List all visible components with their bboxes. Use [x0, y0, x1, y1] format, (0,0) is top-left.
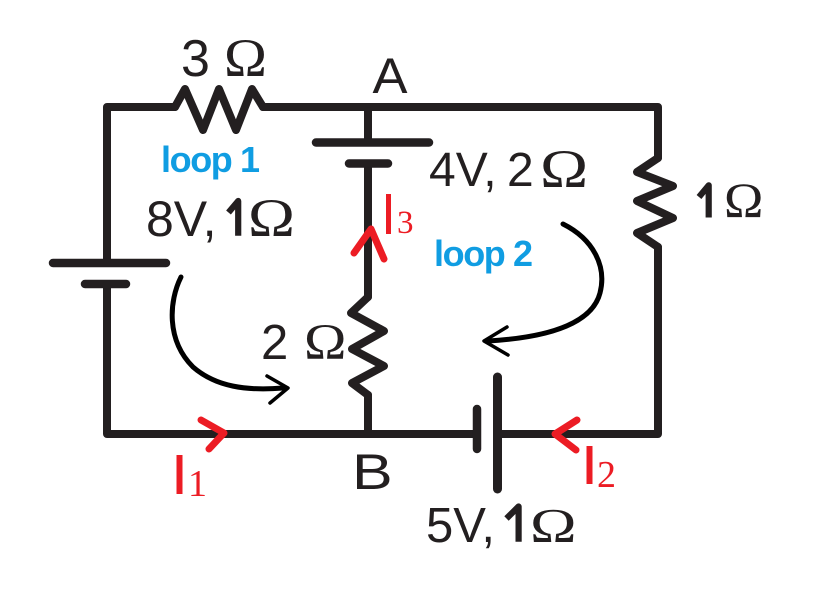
battery B2 (4V,2 ohm) long plate	[316, 138, 429, 147]
svg-text:2: 2	[507, 144, 534, 197]
svg-text:Ω: Ω	[530, 499, 577, 553]
svg-text:Ω: Ω	[224, 29, 267, 89]
wire left side + top-left corner	[107, 107, 175, 263]
value label 8V,1 ohm (battery B1)	[146, 188, 295, 248]
current label I2	[587, 446, 617, 496]
value label 1 ohm (resistor R2)	[699, 173, 763, 228]
wire node A stub down to battery B2	[364, 111, 372, 142]
wire top (through node A) + top-right corner	[263, 107, 658, 158]
wire middle branch (battery B2 to resistor R3)	[364, 166, 372, 297]
current arrow I3 (red, pointing up on middle branch)	[354, 229, 384, 259]
current arrow I2 (red, pointing left on bottom wire)	[555, 420, 577, 450]
battery B3 (5V,1 ohm) long plate	[493, 377, 502, 489]
battery B2 (4V,2 ohm) short plate	[349, 159, 388, 168]
svg-text:loop 2: loop 2	[434, 233, 532, 274]
value label 2 ohm (resistor R3)	[261, 314, 346, 371]
svg-text:3: 3	[181, 30, 210, 88]
loop 1 direction curved arrow (clockwise)	[172, 277, 288, 403]
svg-text:loop 1: loop 1	[161, 139, 260, 180]
battery B3 (5V,1 ohm) short plate	[473, 409, 482, 449]
wire bottom (through node B) + bottom-left corner up to battery B1	[107, 284, 476, 434]
value label 3 ohm (resistor R1)	[181, 29, 267, 89]
value label 4V,2 ohm (battery B2)	[429, 139, 588, 199]
svg-text:Ω: Ω	[724, 173, 763, 228]
svg-text:Ω: Ω	[248, 188, 295, 248]
battery B1 (8V,1 ohm) short plate	[85, 280, 126, 289]
svg-text:2: 2	[597, 454, 616, 496]
svg-text:3: 3	[397, 205, 414, 241]
svg-text:8V,: 8V,	[146, 191, 216, 247]
svg-text:5V,: 5V,	[426, 499, 495, 553]
battery B1 (8V,1 ohm) long plate	[53, 259, 166, 268]
wire right side + bottom-right corner to battery B3	[499, 247, 658, 434]
resistor R3 2 ohm (middle, zigzag)	[351, 297, 384, 395]
loop 2 direction curved arrow (counter-clockwise)	[484, 224, 602, 355]
current label I3	[386, 194, 414, 241]
current arrow I1 (red, pointing right on bottom wire)	[201, 420, 224, 449]
svg-text:4V,: 4V,	[429, 144, 497, 197]
svg-text:Ω: Ω	[304, 314, 346, 371]
wire middle branch to node B	[364, 395, 372, 434]
svg-text:1: 1	[188, 463, 207, 505]
resistor R1 3 ohm (top, zigzag)	[175, 89, 263, 130]
resistor R2 1 ohm (right, zigzag)	[637, 158, 673, 247]
svg-text:A: A	[373, 48, 409, 104]
svg-text:B: B	[352, 444, 393, 500]
current label I1	[177, 455, 208, 505]
svg-text:2: 2	[261, 316, 288, 370]
svg-text:Ω: Ω	[540, 139, 588, 199]
value label 5V,1 ohm (battery B3)	[426, 499, 577, 553]
